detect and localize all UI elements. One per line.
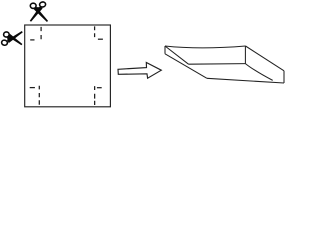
scissors icon above square, pointing down xyxy=(30,2,48,22)
fold line dashes, top-right corner xyxy=(95,26,103,39)
block arrow pointing right xyxy=(118,63,161,79)
fold line dashes, bottom-left corner xyxy=(30,86,40,105)
right rim B-C xyxy=(246,46,285,71)
3D open box (tray) xyxy=(165,46,284,83)
left back vertical A-A' xyxy=(164,46,166,54)
scissors icon left of square, pointing right xyxy=(1,31,23,46)
back rim A-B (slight sag) xyxy=(165,46,246,48)
left bottom A'-D'' xyxy=(165,54,207,79)
right front vertical C-C' xyxy=(283,71,285,83)
front-right rim diagonal B2-G xyxy=(245,64,272,81)
front rim E-B2 xyxy=(189,63,246,66)
square sheet of paper xyxy=(25,25,111,107)
inner back-right vertical B-B2 xyxy=(244,46,246,64)
front bottom D''-C' xyxy=(207,78,284,83)
fold line dashes, top-left corner xyxy=(30,27,41,40)
fold line dashes, bottom-right corner xyxy=(95,86,102,105)
left rim diagonal A-E xyxy=(165,46,189,64)
